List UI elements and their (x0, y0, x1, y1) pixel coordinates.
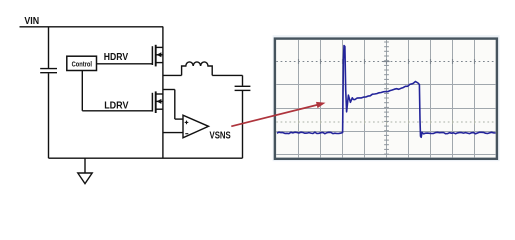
svg-text:HDRV: HDRV (104, 52, 129, 63)
svg-text:Control: Control (72, 61, 92, 68)
svg-text:VSNS: VSNS (210, 130, 231, 141)
svg-text:VIN: VIN (24, 16, 39, 27)
svg-text:LDRV: LDRV (104, 101, 129, 112)
